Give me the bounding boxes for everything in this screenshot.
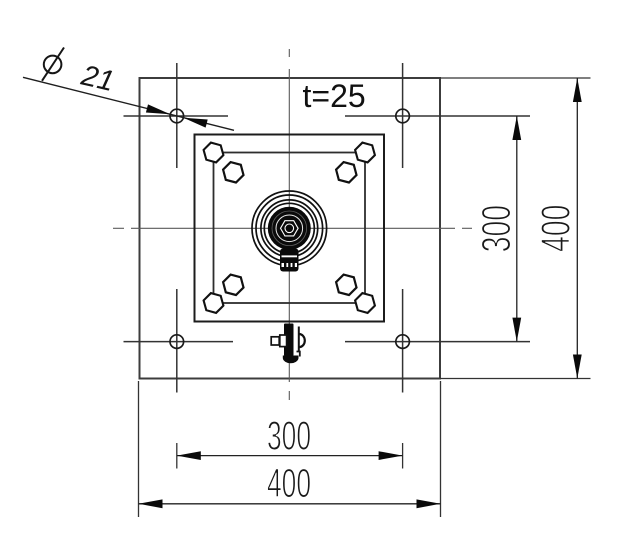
nipple stem square outer xyxy=(280,335,287,347)
bolt hole bottom-left xyxy=(170,335,184,349)
hub bearing black disc xyxy=(268,207,311,250)
arrow bottom 400 left xyxy=(139,499,163,508)
dim extension bottom 300 right xyxy=(402,443,404,469)
nipple stem square inner xyxy=(271,337,279,345)
corner hex hole top-left xyxy=(204,143,224,163)
dim line right 300 xyxy=(516,116,518,342)
dim line bottom 400 xyxy=(139,503,441,505)
bolt head hex top-right xyxy=(336,162,356,182)
nipple right bump xyxy=(299,334,305,347)
hub outer ring 1 xyxy=(252,191,327,266)
leader arrow right xyxy=(183,118,207,128)
arrow right 400 up xyxy=(573,78,582,102)
hub ring 4 xyxy=(264,203,314,253)
dim line bottom 300 xyxy=(177,455,403,457)
hole crosshair top-left xyxy=(124,63,229,168)
dim extension bottom 400 right xyxy=(440,381,442,517)
nipple bottom cap xyxy=(283,356,299,364)
svg-text:300: 300 xyxy=(267,414,311,459)
nipple right bracket xyxy=(298,327,300,352)
nipple body bar xyxy=(284,324,294,357)
arrow right 300 down xyxy=(512,318,521,342)
dim extension bottom 400 left xyxy=(138,381,140,517)
knurled fitting below hub xyxy=(280,249,299,272)
svg-text:t=25: t=25 xyxy=(303,78,366,114)
corner hex hole top-right xyxy=(355,143,375,163)
leader arrow left xyxy=(146,104,170,114)
bolt hole top-left (d21) xyxy=(170,109,184,123)
hub center hex socket xyxy=(281,221,299,236)
bolt head hex bottom-right xyxy=(336,275,356,295)
corner hex hole bottom-left xyxy=(204,293,224,313)
bolt hole top-right xyxy=(396,109,410,123)
hole crosshair top-right + extension to 300 dim xyxy=(345,63,530,168)
svg-text:300: 300 xyxy=(474,205,519,252)
dim line right 400 xyxy=(576,78,578,379)
vertical centerline xyxy=(288,49,290,400)
arrow bottom 300 right xyxy=(379,451,403,460)
hole crosshair bottom-right + extension to 300 dim xyxy=(345,289,530,393)
hub inner white ring a xyxy=(272,211,307,246)
inner top plate inner outline xyxy=(214,153,366,304)
inner top plate outer outline xyxy=(195,135,385,322)
arrow right 400 down xyxy=(573,355,582,379)
hole crosshair bottom-left xyxy=(124,289,234,393)
hub center circle xyxy=(285,224,294,233)
svg-text:400: 400 xyxy=(267,462,311,507)
dim extension bottom 300 left xyxy=(176,443,178,469)
diameter symbol xyxy=(42,48,64,81)
outer mounting plate 400x400 xyxy=(140,78,441,379)
svg-text:400: 400 xyxy=(534,205,579,252)
arrow right 300 up xyxy=(512,116,521,140)
hub ring 3 xyxy=(261,200,318,257)
hub ring 2 xyxy=(256,195,323,262)
hub inner white ring b xyxy=(276,215,303,242)
diameter leader line xyxy=(23,77,234,130)
bolt hole bottom-right xyxy=(396,335,410,349)
bolt head hex top-left xyxy=(223,162,243,182)
nipple hook xyxy=(297,352,300,357)
horizontal centerline xyxy=(113,227,472,229)
grease nipple assembly bottom xyxy=(271,324,305,364)
dim extension right 400 bottom xyxy=(440,378,591,380)
arrow bottom 400 right xyxy=(417,499,441,508)
bolt head hex bottom-left xyxy=(223,275,243,295)
corner hex hole bottom-right xyxy=(355,293,375,313)
dim extension right 400 top xyxy=(440,77,591,79)
arrow bottom 300 left xyxy=(177,451,201,460)
